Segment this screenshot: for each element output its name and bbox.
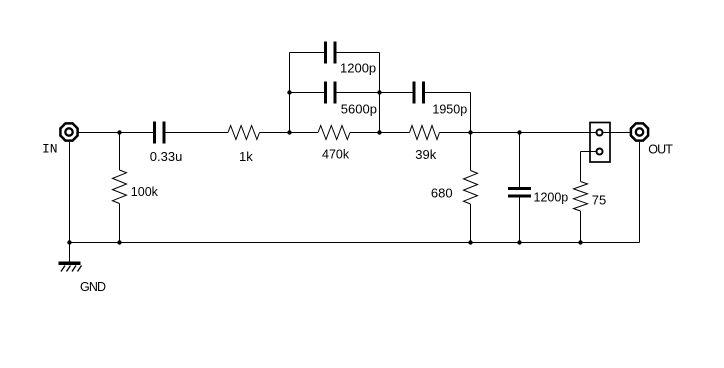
wire mid row node to 1950p <box>380 92 413 94</box>
wire right feedback column <box>379 53 381 133</box>
resistor 39k <box>410 126 440 140</box>
node dot mid row x=379.5 <box>377 90 381 94</box>
wire jack contact down to 75 top <box>580 152 582 182</box>
capacitor 1950p plate right <box>422 82 425 104</box>
wire 680 bottom to rail <box>470 204 472 243</box>
wire OUT down to rail <box>639 142 641 243</box>
svg-text:5600p: 5600p <box>341 102 377 117</box>
svg-text:75: 75 <box>592 193 606 208</box>
wire shunt 1200p to rail <box>519 198 521 243</box>
connector OUT octagon <box>631 123 648 140</box>
svg-text:OUT: OUT <box>648 143 673 157</box>
node dot main row x=119.5 <box>117 130 121 134</box>
capacitor shunt 1200p plate bottom <box>508 195 531 198</box>
svg-text:IN: IN <box>42 142 58 157</box>
capacitor 5600p plate left <box>324 82 327 104</box>
wire top row left of 1200p <box>290 52 325 54</box>
svg-text:0.33u: 0.33u <box>150 149 183 164</box>
capacitor 0.33u plate right <box>163 122 166 144</box>
svg-text:1200p: 1200p <box>534 190 569 204</box>
wire IN down to rail <box>69 142 71 243</box>
wire 75 bottom to rail <box>580 211 582 243</box>
resistor 470k <box>318 126 350 140</box>
wire main row: 470k to 39k through node <box>350 132 410 134</box>
jack J1 body <box>590 123 610 163</box>
wire top row right of 1200p <box>337 52 380 54</box>
wire main row down to shunt 1200p <box>519 133 521 188</box>
capacitor 1950p plate left <box>413 82 416 104</box>
svg-text:39k: 39k <box>415 147 436 162</box>
svg-text:470k: 470k <box>322 148 350 162</box>
resistor 680 <box>464 171 478 205</box>
wire main row: IN to 0.33u <box>79 132 154 134</box>
node dot rail x=581.5 <box>578 240 582 244</box>
resistor 1k <box>228 126 260 140</box>
wire main row: 39k to jack <box>440 132 596 134</box>
resistor 100k <box>113 170 127 204</box>
node dot rail x=519.5 <box>517 240 521 244</box>
wire main row: 0.33u to 1k <box>166 132 229 134</box>
node dot rail x=119.5 <box>117 240 121 244</box>
svg-text:1200p: 1200p <box>340 61 376 76</box>
wire mid row 5600p to node <box>337 92 380 94</box>
wire 100k bottom to rail <box>119 204 121 243</box>
wire jack lower contact to 75 <box>581 151 596 153</box>
svg-text:1k: 1k <box>239 149 253 164</box>
node dot main row x=379.5 <box>377 130 381 134</box>
connector IN octagon <box>60 123 77 140</box>
capacitor 0.33u plate left <box>153 122 156 144</box>
capacitor 1200p top plate left <box>324 42 327 64</box>
jack J1 lower contact <box>597 149 603 155</box>
capacitor shunt 1200p plate top <box>508 187 531 190</box>
wire ground stub below rail <box>69 243 71 263</box>
resistor 75 <box>574 182 588 212</box>
svg-text:GND: GND <box>80 280 106 294</box>
node dot rail x=69.5 <box>67 240 71 244</box>
svg-text:680: 680 <box>431 186 453 201</box>
ground <box>59 262 82 272</box>
capacitor 5600p plate right <box>334 82 337 104</box>
wire main row: jack to OUT <box>604 132 632 134</box>
svg-text:1950p: 1950p <box>432 103 467 117</box>
capacitor 1200p top plate right <box>334 42 337 64</box>
node dot main row x=519.5 <box>517 130 521 134</box>
wire left feedback column <box>289 53 291 133</box>
node dot main row x=470.5 <box>468 130 472 134</box>
wire main row: 1k to 470k through node <box>260 132 319 134</box>
svg-text:100k: 100k <box>131 185 159 199</box>
wire mid row 1950p to right column <box>425 92 471 94</box>
wire node to 100k top <box>119 133 121 171</box>
wire mid row left of 5600p <box>290 92 325 94</box>
node dot mid row x=289.5 <box>287 90 291 94</box>
wire ground rail <box>70 242 640 244</box>
node dot main row x=289.5 <box>287 130 291 134</box>
node dot rail x=470.5 <box>468 240 472 244</box>
wire 1950p right column down to 680 top <box>470 93 472 171</box>
jack J1 tip contact <box>597 130 603 136</box>
